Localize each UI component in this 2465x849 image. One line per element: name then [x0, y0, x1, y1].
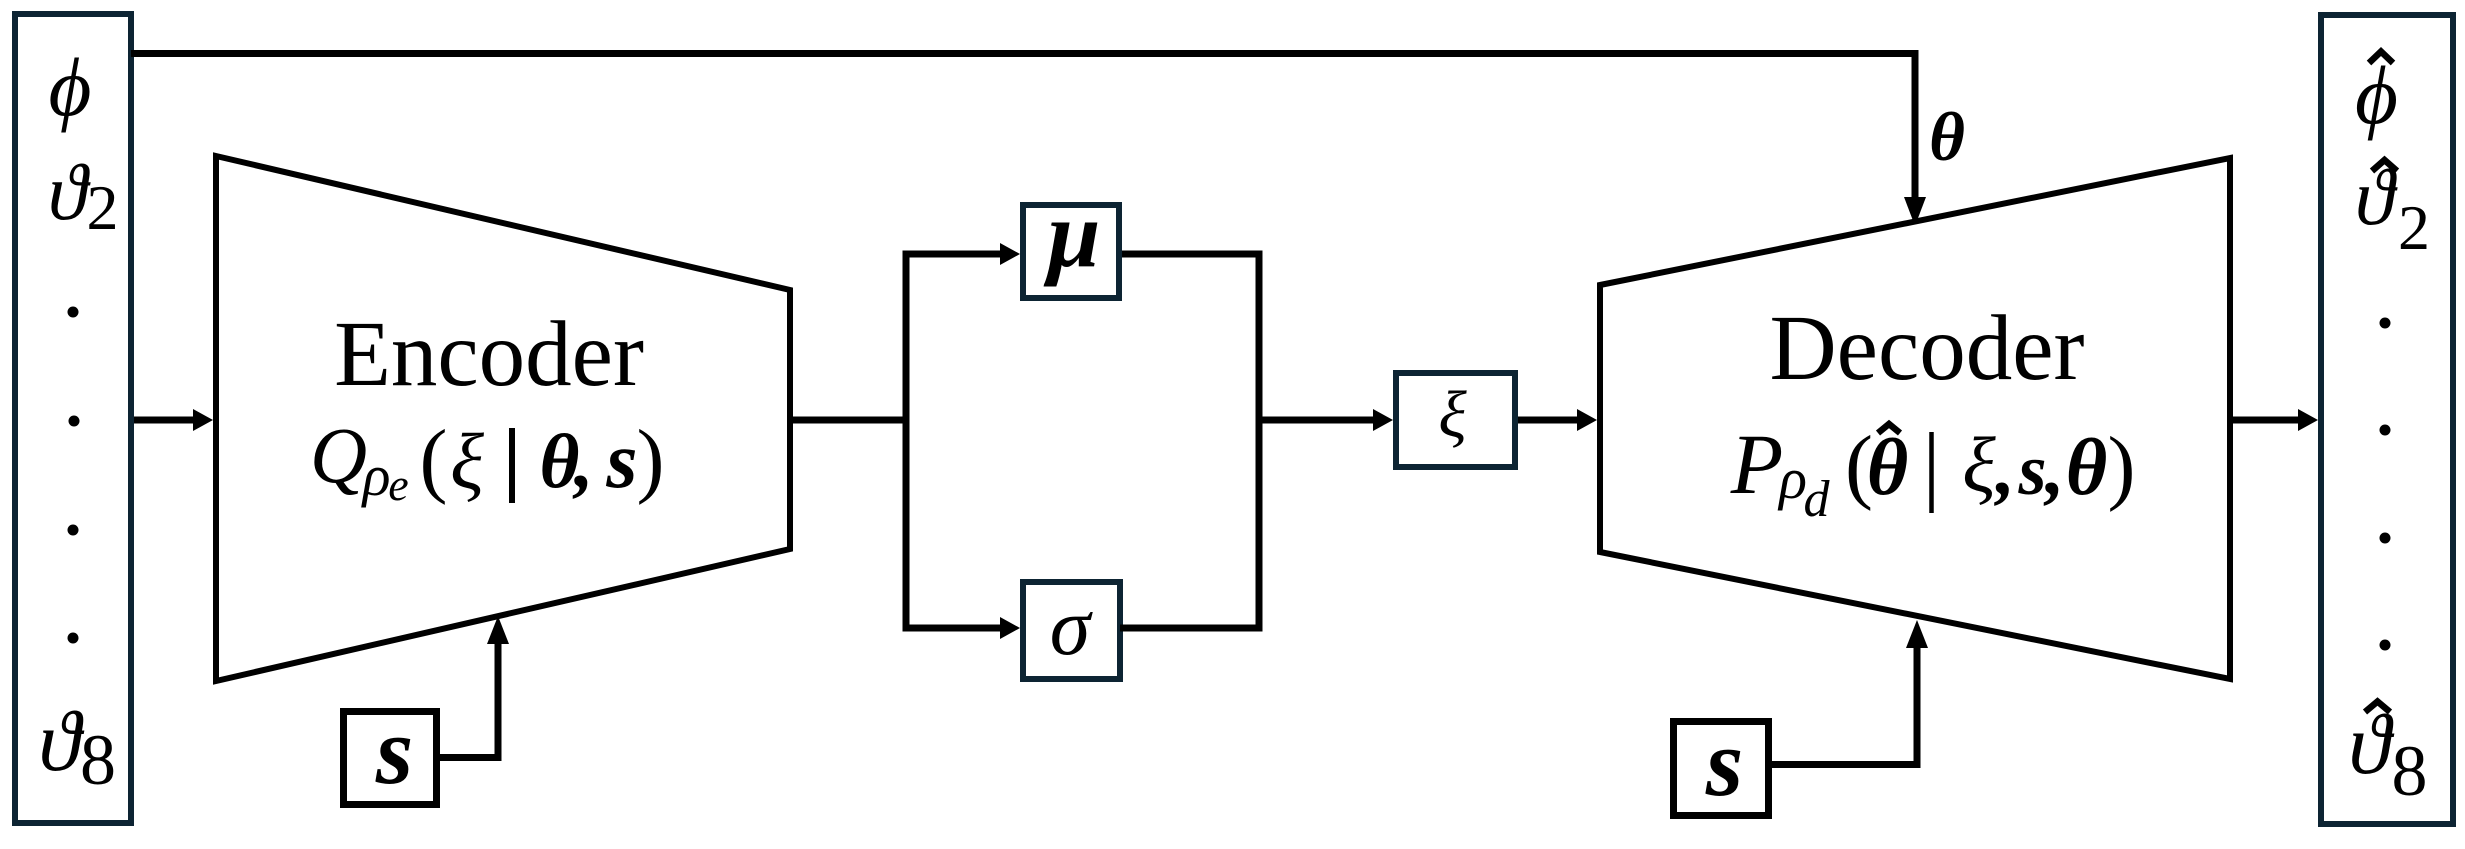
svg-text:θ: θ	[1867, 424, 1909, 512]
xi box	[1396, 373, 1515, 467]
label xi	[1438, 378, 1467, 451]
svg-text:(: (	[420, 413, 448, 506]
wire encoder output to branch	[790, 417, 910, 424]
svg-text:,: ,	[1994, 425, 2015, 511]
svg-text:θ: θ	[1929, 99, 1965, 175]
svg-text:Q: Q	[310, 413, 367, 500]
wire branch to sigma	[906, 625, 1002, 632]
svg-text:s: s	[2017, 430, 2046, 510]
label P_rho_d(theta-hat | xi, s, theta)	[1730, 416, 2136, 528]
label Q_rho_e(xi | theta, s)	[310, 413, 665, 510]
svg-text:μ: μ	[1043, 181, 1101, 287]
label theta_2 (input vector)	[48, 149, 119, 243]
label theta-hat_8 (output vector)	[2348, 696, 2427, 811]
label s (decoder)	[1705, 709, 1743, 816]
svg-text:s: s	[605, 417, 637, 505]
svg-text:s: s	[375, 697, 413, 804]
arrowhead into decoder bottom	[1906, 620, 1928, 648]
svg-text:2: 2	[2398, 192, 2430, 263]
svg-text:,: ,	[572, 418, 593, 504]
svg-text:d: d	[1804, 471, 1831, 528]
svg-text:ϕ: ϕ	[49, 41, 92, 133]
label theta (wire label)	[1929, 99, 1965, 175]
sigma box	[1023, 582, 1120, 679]
s box (decoder conditioning)	[1674, 722, 1769, 816]
wire decoder output	[2230, 417, 2300, 424]
svg-text:Decoder: Decoder	[1770, 297, 2085, 400]
svg-text:): )	[2108, 420, 2136, 513]
svg-text:e: e	[388, 459, 408, 510]
label Encoder	[334, 303, 644, 406]
svg-text:P: P	[1730, 416, 1784, 512]
label Decoder	[1770, 297, 2085, 400]
arrowhead into decoder left	[1577, 409, 1597, 431]
wire xi to decoder	[1518, 417, 1579, 424]
vertical ellipsis dots (input vector)	[68, 307, 80, 644]
wire collector to xi	[1259, 417, 1375, 424]
collector vertical wire (mu/sigma join)	[1256, 251, 1263, 632]
svg-text:σ: σ	[1050, 581, 1094, 672]
svg-text:Encoder: Encoder	[334, 303, 644, 406]
arrowhead into xi box	[1373, 409, 1393, 431]
svg-text:ϑ: ϑ	[38, 693, 84, 789]
branch vertical wire (mu/sigma split)	[903, 251, 910, 632]
label theta_8 (input vector)	[38, 693, 116, 800]
mu box	[1023, 205, 1119, 298]
arrowhead into encoder	[193, 409, 213, 431]
svg-text:ϑ: ϑ	[48, 149, 91, 237]
svg-text:s: s	[1705, 709, 1743, 816]
svg-text:8: 8	[2392, 731, 2428, 811]
label mu	[1043, 181, 1101, 287]
encoder trapezoid	[216, 156, 790, 681]
label s (encoder)	[375, 697, 413, 804]
wire mu to collector	[1122, 251, 1263, 258]
arrowhead into mu box	[1000, 243, 1020, 265]
svg-text:8: 8	[80, 720, 116, 800]
vertical ellipsis dots (output vector)	[2380, 318, 2391, 651]
decoder trapezoid	[1600, 158, 2230, 679]
wire s to decoder (vertical rise)	[1914, 646, 1921, 768]
svg-text:): )	[637, 413, 665, 506]
wire theta feed (top horizontal)	[131, 50, 1919, 57]
output vector box (right)	[2321, 15, 2453, 824]
label sigma	[1050, 581, 1094, 672]
svg-text:ξ: ξ	[450, 419, 484, 506]
svg-text:2: 2	[87, 172, 119, 243]
wire input vector to encoder	[134, 417, 196, 424]
arrowhead into encoder bottom	[487, 616, 509, 644]
arrowhead into decoder top	[1904, 197, 1926, 226]
label theta-hat_2 (output vector)	[2355, 154, 2430, 263]
svg-text:ρ: ρ	[1777, 446, 1807, 511]
svg-text:ξ: ξ	[1962, 421, 1996, 508]
label phi (input vector)	[49, 41, 92, 133]
s box (encoder conditioning)	[344, 712, 437, 805]
svg-text:ξ: ξ	[1438, 378, 1467, 451]
wire s to decoder (horizontal)	[1772, 761, 1921, 768]
svg-text:ρ: ρ	[361, 443, 391, 508]
label phi-hat (output vector)	[2355, 49, 2398, 141]
svg-text:,: ,	[2043, 425, 2064, 511]
wire sigma to collector	[1120, 625, 1263, 632]
arrowhead into sigma box	[1000, 617, 1020, 639]
wire theta feed (vertical drop to decoder)	[1912, 54, 1919, 201]
wire s to encoder (horizontal)	[440, 754, 502, 761]
arrowhead into output vector	[2298, 409, 2318, 431]
input vector box (left)	[15, 14, 131, 823]
wire s to encoder (vertical rise)	[495, 640, 502, 761]
svg-text:θ: θ	[2066, 424, 2108, 512]
wire branch to mu	[906, 251, 1002, 258]
